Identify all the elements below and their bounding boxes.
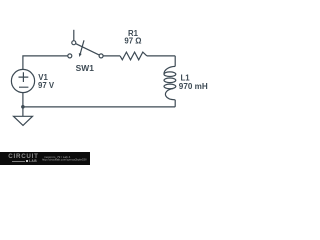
svg-text:97 Ω: 97 Ω — [124, 37, 141, 46]
svg-text:L1: L1 — [181, 73, 191, 82]
svg-text:970 mH: 970 mH — [179, 82, 208, 91]
svg-text:SW1: SW1 — [76, 64, 95, 73]
svg-text:97 V: 97 V — [38, 81, 55, 90]
